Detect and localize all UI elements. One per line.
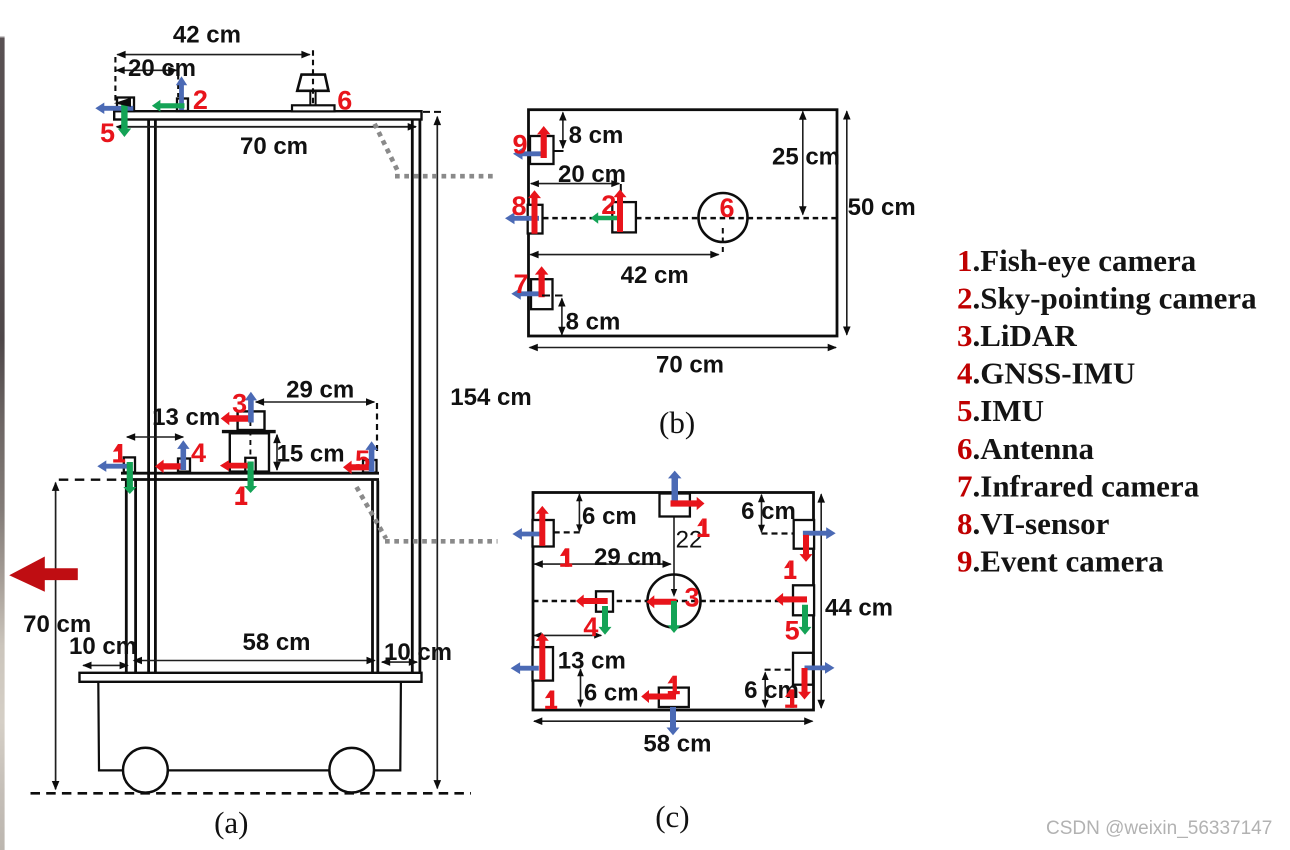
extension dashed device2 x=178.2: [177, 74, 179, 97]
dim 42cm (b): [530, 254, 718, 256]
dim 6cm top-left (c): [578, 494, 580, 531]
LiDAR (3) pedestal: [230, 433, 269, 471]
dim 70cm top plate: [117, 126, 416, 128]
antenna circle (6) in (b): [699, 193, 748, 242]
svg-text:13 cm: 13 cm: [152, 404, 220, 431]
bottom-right fisheye (1) box (c): [765, 669, 793, 671]
svg-text:15 cm: 15 cm: [277, 441, 345, 468]
cart lower body: [98, 682, 401, 771]
svg-text:4: 4: [583, 612, 598, 642]
fish-eye (1) left box: [124, 457, 135, 472]
IMU (5) shelf-right box: [363, 460, 377, 473]
svg-text:6: 6: [719, 193, 734, 223]
svg-text:7: 7: [513, 269, 528, 299]
svg-text:42 cm: 42 cm: [173, 22, 241, 49]
svg-text:22: 22: [676, 527, 703, 554]
svg-text:6 cm: 6 cm: [582, 503, 637, 530]
dim 154cm: [436, 117, 438, 789]
svg-text:50 cm: 50 cm: [848, 194, 916, 221]
svg-text:8 cm: 8 cm: [569, 122, 624, 149]
dim 70cm left: [55, 483, 57, 790]
lower-box right wall: [371, 481, 374, 673]
svg-text:(a): (a): [214, 805, 248, 840]
svg-text:5: 5: [785, 615, 800, 645]
label 1 top-right (c): [789, 561, 793, 580]
dim 20cm: [116, 69, 176, 71]
dim 44cm (c): [820, 494, 822, 708]
IMU (5) box (c): [793, 585, 814, 615]
dim 13cm: [127, 436, 183, 438]
dim 29cm: [256, 401, 374, 403]
top-center fisheye (1) box (c): [660, 494, 690, 517]
sky camera (2) box (b): [612, 202, 636, 232]
sky camera (2) box: [177, 99, 188, 112]
svg-text:13 cm: 13 cm: [558, 648, 626, 675]
svg-text:6: 6: [337, 85, 352, 115]
dim 6cm bottom-right (c): [764, 673, 766, 708]
svg-text:10 cm: 10 cm: [69, 633, 137, 660]
infrared (7) box: [531, 279, 553, 309]
dim 10cm right: [382, 661, 417, 663]
wheel right: [329, 748, 374, 793]
dim 8cm top (b): [562, 113, 564, 149]
lidar circle (3) in (c): [648, 575, 701, 628]
svg-text:25 cm: 25 cm: [772, 144, 840, 171]
svg-text:3: 3: [684, 583, 699, 613]
(c) center dashed line: [533, 600, 814, 603]
svg-text:(c): (c): [655, 799, 689, 834]
svg-text:2: 2: [601, 190, 616, 220]
(b) platform rectangle: [529, 110, 838, 336]
wheel left: [123, 748, 168, 793]
svg-text:8.VI-sensor: 8.VI-sensor: [957, 506, 1110, 541]
right post (double line): [411, 120, 414, 673]
svg-text:4.GNSS-IMU: 4.GNSS-IMU: [957, 356, 1135, 391]
dim 58cm: [134, 660, 375, 662]
dim 50cm (b): [846, 111, 848, 335]
lower-box left wall: [125, 481, 128, 673]
svg-text:8: 8: [511, 191, 526, 221]
event camera (9) box: [530, 136, 554, 164]
svg-text:58 cm: 58 cm: [643, 731, 711, 758]
label 1 bottom-center (c): [673, 676, 677, 695]
(b) center dashed line: [543, 217, 837, 220]
vertical line 22 to lidar center: [673, 508, 675, 590]
dim 20cm (b): [531, 183, 619, 185]
svg-text:CSDN @weixin_56337147: CSDN @weixin_56337147: [1046, 818, 1272, 839]
IMU (5) box top-left: [117, 98, 134, 112]
GNSS-IMU (4) box (c): [596, 591, 613, 611]
fish-eye (1) center box: [245, 458, 255, 472]
antenna (6) on top plate: [297, 75, 328, 91]
svg-text:1.Fish-eye camera: 1.Fish-eye camera: [957, 243, 1197, 278]
top-right fisheye (1) box (c): [762, 532, 801, 534]
svg-text:29 cm: 29 cm: [286, 377, 354, 404]
svg-text:5.IMU: 5.IMU: [957, 393, 1044, 428]
svg-text:6.Antenna: 6.Antenna: [957, 431, 1094, 466]
callout dotted to (b): [375, 124, 399, 173]
dim 15cm: [276, 435, 278, 470]
extension dashed shelf-left y=479.7: [59, 479, 122, 481]
label 1 bottom-right (c): [790, 689, 794, 708]
VI-sensor (8) box: [528, 205, 543, 234]
dim 13cm (c): [535, 634, 602, 636]
top-left fisheye (1) box (c): [554, 531, 581, 533]
svg-text:5: 5: [100, 118, 115, 148]
svg-text:5: 5: [355, 445, 370, 475]
svg-text:44 cm: 44 cm: [825, 595, 893, 622]
svg-text:3.LiDAR: 3.LiDAR: [957, 318, 1077, 353]
svg-text:9: 9: [512, 130, 527, 160]
label 1 center: [240, 487, 244, 506]
extension dashed left x=115.4: [114, 57, 116, 103]
top plate: [114, 111, 421, 119]
label 1 bottom-left (c): [550, 691, 554, 710]
(c) platform rectangle: [533, 493, 814, 711]
middle shelf: [121, 472, 379, 475]
dim 29cm (c): [535, 563, 671, 565]
dim 42cm: [117, 54, 309, 56]
svg-text:8 cm: 8 cm: [566, 309, 621, 336]
svg-text:(b): (b): [659, 405, 695, 440]
svg-text:58 cm: 58 cm: [242, 629, 310, 656]
GNSS-IMU (4) box: [178, 459, 190, 472]
dim 10cm left: [83, 664, 128, 666]
callout dotted to (c): [357, 487, 387, 539]
svg-text:6 cm: 6 cm: [584, 679, 639, 706]
svg-text:2.Sky-pointing camera: 2.Sky-pointing camera: [957, 280, 1257, 315]
svg-text:154 cm: 154 cm: [450, 384, 531, 411]
svg-text:20 cm: 20 cm: [128, 55, 196, 82]
svg-text:10 cm: 10 cm: [384, 639, 452, 666]
dim 6cm top-right (c): [761, 495, 763, 532]
label 1 top-center (c): [702, 519, 706, 538]
left post (double line): [147, 120, 150, 673]
svg-text:29 cm: 29 cm: [594, 544, 662, 571]
dim 58cm (c): [534, 720, 813, 722]
svg-text:70 cm: 70 cm: [656, 351, 724, 378]
svg-text:70 cm: 70 cm: [240, 133, 308, 160]
bottom plate: [80, 673, 422, 682]
svg-text:6 cm: 6 cm: [741, 498, 796, 525]
dim 6cm bottom-left (c): [580, 669, 582, 706]
svg-text:42 cm: 42 cm: [621, 262, 689, 289]
label 1 top-left (c): [565, 548, 569, 567]
dim 8cm bottom (b): [542, 295, 563, 297]
wire: ground dashed line: [31, 792, 472, 795]
big red arrow (travel direction): [9, 557, 78, 592]
svg-text:20 cm: 20 cm: [558, 161, 626, 188]
svg-text:7.Infrared camera: 7.Infrared camera: [957, 468, 1200, 503]
bottom-center fisheye (1) box (c): [659, 688, 689, 707]
svg-text:3: 3: [232, 389, 247, 419]
bottom-left fisheye (1) box (c): [533, 647, 554, 681]
dim 70cm (b): [530, 347, 837, 349]
svg-text:9.Event camera: 9.Event camera: [957, 544, 1164, 579]
svg-text:4: 4: [191, 438, 206, 468]
svg-text:2: 2: [193, 85, 208, 115]
dim 25cm (b): [802, 112, 804, 215]
label 1 left: [118, 444, 122, 463]
photo sliver strip at left edge: [0, 0, 5, 850]
